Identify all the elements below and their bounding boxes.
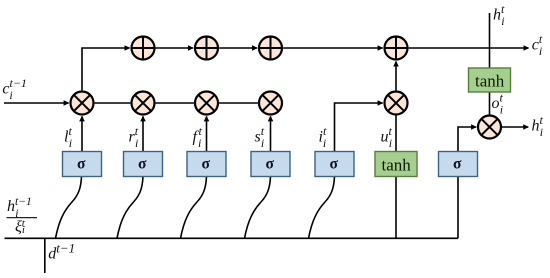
- add node 2: [195, 37, 218, 60]
- wire mult o to h_t output: [502, 126, 529, 128]
- wire c_prev input into mult l: [4, 102, 69, 104]
- wire h_t vertical top through c line to tanh o: [489, 13, 491, 68]
- svg-text:σ: σ: [266, 156, 275, 173]
- wire sigma s arrow up to mult s: [270, 116, 272, 151]
- svg-text:tanh: tanh: [475, 72, 505, 91]
- svg-text:fti: fti: [193, 124, 203, 150]
- sigma box f: [187, 152, 226, 177]
- wire s-curve sigma i to bus: [309, 177, 335, 239]
- wire mult f to mult s: [219, 102, 258, 104]
- wire tanh u down to bus: [395, 177, 397, 239]
- svg-text:uti: uti: [381, 124, 393, 150]
- add node 4: [385, 37, 408, 60]
- label fraction h_prev over xi: [7, 196, 38, 236]
- sigma box l: [63, 152, 102, 177]
- sigma box i: [315, 152, 354, 177]
- sigma box o: [439, 152, 478, 177]
- wire mult u up to add 4: [395, 62, 397, 91]
- svg-text:tanh: tanh: [382, 156, 412, 175]
- svg-text:sti: sti: [255, 124, 265, 150]
- mult node r: [132, 92, 155, 115]
- wire s-curve sigma r to bus: [117, 177, 143, 239]
- wire mult l to mult r: [95, 102, 131, 104]
- svg-text:ct−1i: ct−1i: [2, 76, 27, 102]
- svg-text:ξti: ξti: [15, 217, 26, 236]
- svg-text:lti: lti: [64, 124, 72, 150]
- wire add 1 to add 2: [156, 47, 193, 49]
- wire sigma i elbow into mult u: [335, 103, 383, 152]
- svg-text:rti: rti: [129, 124, 139, 150]
- wire mult r to mult f: [156, 102, 194, 104]
- svg-text:hti: hti: [493, 2, 505, 28]
- svg-text:σ: σ: [330, 156, 339, 173]
- mult node l: [71, 92, 94, 115]
- sigma box s: [251, 152, 290, 177]
- wire s-curve sigma s to bus: [245, 177, 271, 239]
- svg-text:ht−1i: ht−1i: [7, 196, 32, 220]
- wire sigma f arrow up to mult f: [206, 116, 208, 151]
- wire s-curve sigma l to bus: [56, 177, 82, 239]
- tanh box u: [375, 152, 417, 177]
- wire add 2 to add 3: [219, 47, 257, 49]
- wire tanh u up to mult u: [395, 115, 397, 152]
- svg-text:dt−1: dt−1: [48, 241, 75, 263]
- mult node s: [259, 92, 282, 115]
- wire sigma o elbow into mult o: [458, 127, 476, 152]
- tanh box o: [469, 68, 511, 92]
- wire sigma l arrow up to mult l: [81, 116, 83, 151]
- add node 3: [259, 37, 282, 60]
- wire d_prev vertical: [44, 238, 46, 273]
- wire tanh o down to mult o: [489, 92, 491, 115]
- mult node f: [195, 92, 218, 115]
- svg-text:hti: hti: [532, 113, 544, 139]
- svg-text:σ: σ: [453, 156, 462, 173]
- svg-text:σ: σ: [202, 156, 211, 173]
- mult node u: [385, 92, 408, 115]
- wire add 4 to c_t output: [409, 47, 529, 49]
- svg-text:σ: σ: [77, 156, 86, 173]
- svg-text:oti: oti: [492, 91, 504, 117]
- wire add 3 to add 4: [283, 47, 383, 49]
- wire mult l up to add 1: [82, 48, 130, 90]
- sigma box r: [124, 152, 163, 177]
- svg-text:cti: cti: [532, 32, 543, 58]
- svg-text:iti: iti: [319, 124, 327, 150]
- wire sigma o down to bus: [457, 177, 459, 239]
- svg-text:σ: σ: [138, 156, 147, 173]
- add node 1: [132, 37, 155, 60]
- mult node o: [478, 116, 501, 139]
- wire s-curve sigma f to bus: [181, 177, 207, 239]
- wire input bus horizontal: [5, 237, 459, 239]
- wire sigma r arrow up to mult r: [142, 116, 144, 151]
